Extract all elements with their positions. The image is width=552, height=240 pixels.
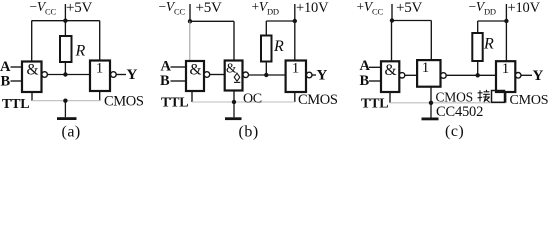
CMOS inverter gate (a) <box>90 61 110 92</box>
label R (b) <box>273 38 284 55</box>
wire rail to gate1 power (a) <box>31 21 33 62</box>
TTL NAND gate b1 <box>186 61 204 91</box>
output bubble gate c2 <box>441 73 447 79</box>
Vdd terminal wire (b) <box>294 4 296 21</box>
TTL NAND gate (a) <box>22 62 42 93</box>
junction dot node (a) <box>63 72 67 76</box>
caption (a) <box>62 124 81 141</box>
wire gate c2 ground stub <box>430 87 432 103</box>
label -Vdd (c) <box>469 0 496 17</box>
ground rail (b) <box>192 101 295 103</box>
label Y (c) <box>533 68 544 84</box>
hanzi kou (c) <box>492 91 505 103</box>
resistor R (b) <box>261 36 272 62</box>
svg-text:TTL: TTL <box>361 97 388 112</box>
wire output Y (a) <box>116 74 126 76</box>
svg-text:CMOS: CMOS <box>104 94 144 110</box>
input A label (c) <box>360 58 371 74</box>
label CMOS (a) <box>104 94 144 110</box>
wire gate b1 to gate b2 <box>210 74 225 76</box>
wire gate2 ground stub (a) <box>99 91 101 101</box>
svg-text:1: 1 <box>422 60 429 76</box>
wire gate1 ground stub (a) <box>31 92 33 101</box>
output bubble gate c1 <box>399 73 404 78</box>
junction dot Vdd (b) <box>293 19 297 23</box>
Vdd rail (c) <box>478 20 507 22</box>
wire gate b3 ground stub <box>294 92 296 102</box>
Vdd terminal wire (c) <box>505 4 507 21</box>
wire input B (c) <box>369 80 381 82</box>
Vdd rail (b) <box>266 20 295 22</box>
ground rail (c) <box>390 102 506 104</box>
svg-text:B: B <box>1 74 11 90</box>
wire gate c1 ground stub <box>389 92 391 103</box>
wire gate1 to gate2 (a) <box>47 74 90 76</box>
label TTL (b) <box>161 96 188 111</box>
svg-text:+10V: +10V <box>296 0 329 16</box>
ground rail (a) <box>32 100 100 102</box>
wire output Y (b) <box>312 74 316 76</box>
label R (c) <box>483 36 494 53</box>
junction dot Vdd (c) <box>504 19 508 23</box>
junction dot node (b) <box>264 73 268 77</box>
wire resistor to Vdd rail (c) <box>477 21 479 33</box>
wire Vdd to gate b3 power <box>294 21 296 61</box>
label -Vcc (b) <box>159 0 186 17</box>
svg-text:&: & <box>226 61 237 76</box>
resistor R (c) <box>472 33 482 61</box>
input B label (a) <box>1 74 11 90</box>
wire Vcc to gate c1 power <box>391 21 393 62</box>
wire gate c1 to gate c2 <box>405 74 417 76</box>
wire gate b2 ground stub <box>233 91 235 103</box>
input A label (b) <box>161 59 172 75</box>
label CC4502 (c) <box>436 104 483 120</box>
svg-text:(b): (b) <box>239 124 259 141</box>
label +Vcc (c) <box>357 0 384 17</box>
wire gate c2 to gate c3 <box>446 74 496 76</box>
wire input A (a) <box>11 66 23 68</box>
label Y (b) <box>317 68 328 84</box>
svg-text:TTL: TTL <box>2 97 29 112</box>
label +5V (c) <box>396 0 423 16</box>
svg-text:CMOS: CMOS <box>298 92 338 108</box>
output bubble gate2 (a) <box>111 72 117 78</box>
input A label (a) <box>0 59 11 75</box>
wire gate c3 ground stub <box>505 92 507 103</box>
wire input B (a) <box>11 80 23 82</box>
svg-text:B: B <box>360 73 370 89</box>
wire rail to gate b1 power grey (b) <box>189 21 191 61</box>
Vcc terminal wire (a) <box>64 4 66 21</box>
output bubble gate c3 <box>515 73 521 79</box>
label CMOS interface (c) <box>436 90 473 105</box>
svg-text:(c): (c) <box>445 123 464 140</box>
svg-text:+5V: +5V <box>196 0 223 16</box>
+5V rail (c) <box>392 20 431 22</box>
label +5V (a) <box>66 0 93 16</box>
label -Vcc (a) <box>30 0 57 17</box>
input B label (c) <box>360 73 370 89</box>
svg-text:&: & <box>385 62 397 79</box>
label +Vdd (b) <box>252 0 279 17</box>
label CMOS right (c) <box>510 93 549 108</box>
junction dot ground (a) <box>63 99 67 103</box>
wire rail to gate c2 power <box>430 21 432 61</box>
CMOS inverter gate c3 <box>496 61 515 92</box>
svg-text:&: & <box>27 62 39 79</box>
svg-text:+5V: +5V <box>396 0 423 16</box>
+5V rail (b) <box>190 20 234 22</box>
wire resistor to output node (a) <box>64 62 66 75</box>
label CMOS (b) <box>298 92 338 108</box>
junction dot ground (c) <box>429 101 433 105</box>
Vcc terminal wire (b) <box>189 4 191 21</box>
ground (a) <box>57 101 77 120</box>
svg-text:1: 1 <box>96 61 103 77</box>
junction dot node (c) <box>476 73 480 77</box>
junction dot Vcc (b) <box>188 19 192 23</box>
svg-text:1: 1 <box>292 61 299 77</box>
svg-text:(a): (a) <box>62 124 81 141</box>
wire rail to resistor (a) <box>64 21 66 36</box>
wire gate b1 ground stub <box>191 91 193 102</box>
output bubble gate1 (a) <box>42 72 48 78</box>
Vcc terminal wire (c) <box>391 4 393 21</box>
output bubble gate b3 <box>306 72 312 78</box>
+5V rail (a) <box>32 20 100 22</box>
caption (c) <box>445 123 464 140</box>
wire resistor to Vdd rail (b) <box>265 21 267 36</box>
label Y (a) <box>127 67 138 83</box>
wire output Y (c) <box>521 74 532 76</box>
svg-text:Y: Y <box>127 67 138 83</box>
wire gate b2 to gate b3 <box>249 74 286 76</box>
junction dot ground (b) <box>232 100 236 104</box>
hanzi jie (c) <box>478 90 490 103</box>
svg-text:CMOS: CMOS <box>510 93 549 108</box>
label +10V (c) <box>508 0 541 16</box>
svg-text:OC: OC <box>243 92 262 107</box>
label +5V (b) <box>196 0 223 16</box>
caption (b) <box>239 124 259 141</box>
resistor R (a) <box>60 36 72 62</box>
wire node to resistor (b) <box>265 62 267 76</box>
wire rail to gate b2 power (b) <box>233 21 235 60</box>
ground (c) <box>422 103 439 121</box>
svg-text:+10V: +10V <box>508 0 541 16</box>
junction dot Vcc (c) <box>390 18 394 22</box>
label R (a) <box>75 43 86 60</box>
svg-text:CC4502: CC4502 <box>436 104 483 120</box>
open-collector TTL gate b2 <box>225 61 243 91</box>
input B label (b) <box>160 73 170 89</box>
wire input A (c) <box>369 66 381 68</box>
svg-text:1: 1 <box>502 61 509 77</box>
ground (b) <box>225 102 242 120</box>
wire rail to gate2 power (a) <box>99 21 101 61</box>
svg-text:CMOS: CMOS <box>436 90 473 105</box>
TTL NAND gate c1 <box>381 61 399 92</box>
junction dot Vcc (a) <box>63 19 67 23</box>
wire input B (b) <box>171 80 187 82</box>
label TTL (c) <box>361 97 388 112</box>
svg-text:Y: Y <box>533 68 544 84</box>
label TTL (a) <box>2 97 29 112</box>
label OC (b) <box>243 92 262 107</box>
wire Vdd to gate c3 power <box>505 21 507 61</box>
svg-text:R: R <box>483 36 494 53</box>
output bubble gate b1 <box>204 72 210 78</box>
wire node to resistor (c) <box>477 61 479 75</box>
svg-text:TTL: TTL <box>161 96 188 111</box>
svg-text:R: R <box>273 38 284 55</box>
wire input A (b) <box>171 66 187 68</box>
CMOS inverter gate b3 <box>286 61 306 93</box>
open-collector diamond symbol (b) <box>234 73 240 82</box>
svg-text:+5V: +5V <box>66 0 93 16</box>
svg-text:Y: Y <box>317 68 328 84</box>
svg-text:B: B <box>160 73 170 89</box>
output bubble gate b2 <box>243 72 249 78</box>
svg-text:&: & <box>190 62 202 79</box>
svg-text:R: R <box>75 43 86 60</box>
svg-text:A: A <box>360 58 371 74</box>
label +10V (b) <box>296 0 329 16</box>
CMOS buffer gate c2 CC4502 <box>417 60 440 87</box>
